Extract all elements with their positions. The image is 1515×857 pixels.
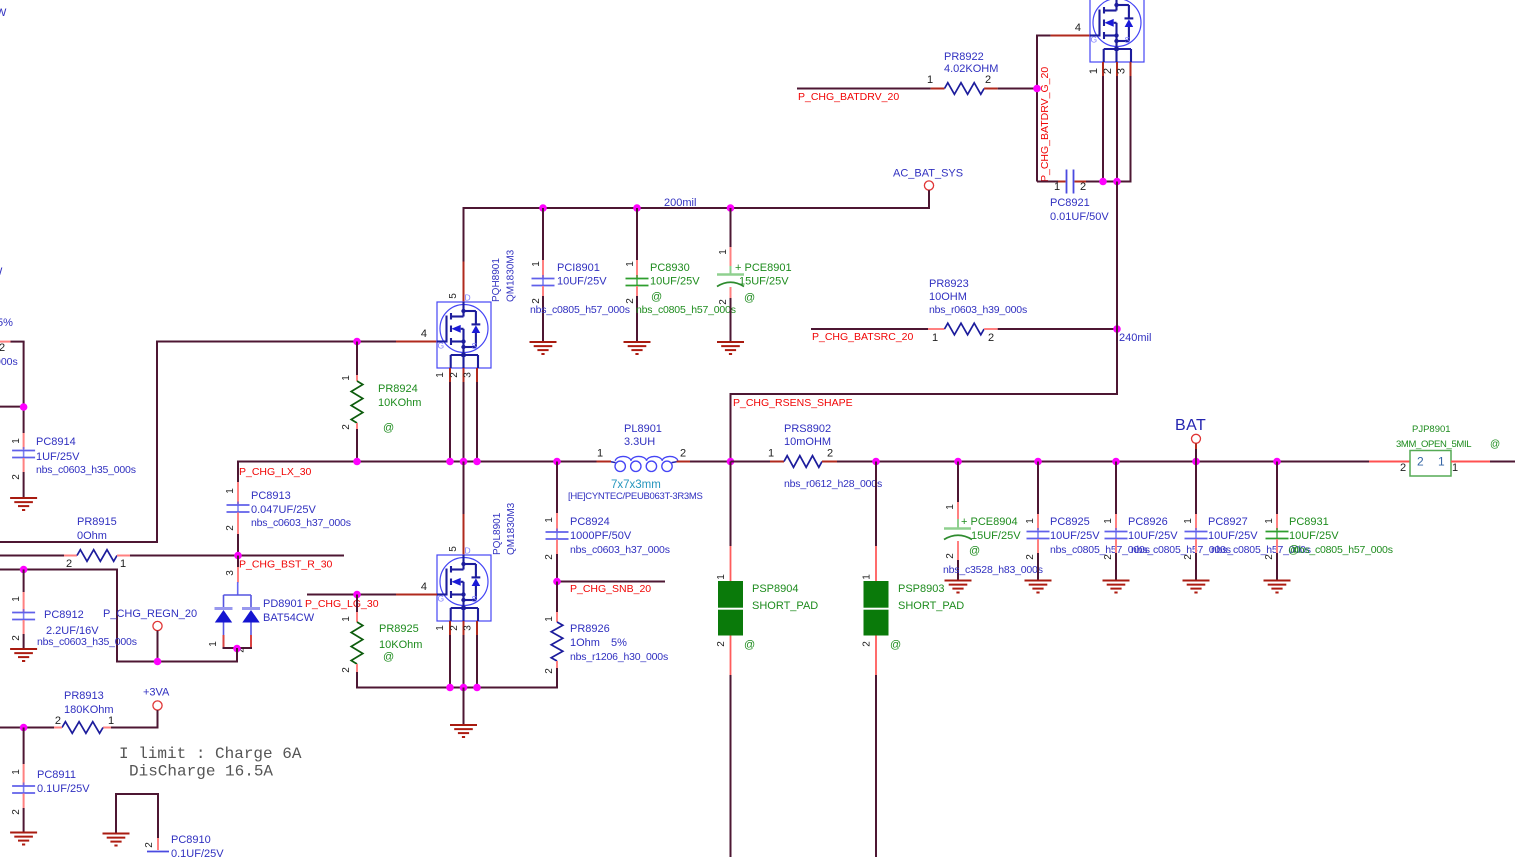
junction PC8925	[1034, 458, 1042, 466]
svg-text:G: G	[438, 594, 445, 604]
svg-text:2: 2	[449, 372, 460, 378]
svg-text:SHORT_PAD: SHORT_PAD	[752, 600, 818, 612]
svg-text:PC8924: PC8924	[570, 516, 610, 528]
svg-text:nbs_r0603_h39_000s: nbs_r0603_h39_000s	[929, 304, 1027, 316]
svg-text:1: 1	[108, 715, 114, 727]
svg-text:nbs_r0612_h28_000s: nbs_r0612_h28_000s	[784, 478, 882, 490]
resistor PRS8902 pin 2 stub	[822, 461, 837, 463]
wire REGN row horizontal	[116, 661, 238, 663]
wire net P_CHG_BST_R_30	[130, 555, 344, 557]
junction PC8914 tap	[20, 403, 28, 411]
resistor PR8923 pin 1 stub	[928, 328, 945, 330]
svg-text:@: @	[744, 639, 755, 651]
resistor PR8924 zigzag (green)	[351, 381, 363, 423]
svg-text:1: 1	[927, 74, 933, 86]
junction LX PC8924	[553, 458, 561, 466]
jumper PJP8901 body box	[1410, 451, 1451, 477]
wire stub from left edge at 406	[0, 406, 24, 408]
svg-text:3: 3	[463, 372, 474, 378]
svg-text:2: 2	[66, 558, 72, 570]
capacitor PCE8901 wire from 200mil	[730, 208, 732, 247]
capacitor PCE8904 pin 1 stub	[957, 502, 959, 519]
svg-text:1: 1	[945, 504, 956, 510]
capacitor PCE8904 pin 2 stub	[957, 541, 959, 560]
terminal +3VA	[153, 701, 162, 710]
jumper PJP8901 pin 2 stub	[1369, 461, 1410, 463]
wire PC8913 to BST junction	[237, 534, 239, 556]
svg-text:nbs_c0805_h57_000s: nbs_c0805_h57_000s	[530, 304, 630, 316]
capacitor PCE8901 wire to ground	[730, 298, 732, 342]
svg-text:DisCharge 16.5A: DisCharge 16.5A	[129, 763, 273, 781]
wire RSENS vertical down	[730, 393, 732, 462]
capacitor PC8930 wire from 200mil	[636, 208, 638, 260]
ground PCE8901	[717, 342, 744, 354]
svg-text:1: 1	[544, 517, 555, 523]
transistor PQL8901 pin 4 stub (gate)	[396, 594, 437, 596]
svg-text:10OHM: 10OHM	[929, 291, 967, 303]
diode PD8901 pin 3 stub	[237, 567, 239, 583]
junction BAT PC8927	[1192, 458, 1200, 466]
svg-text:2: 2	[341, 424, 352, 430]
svg-text:1: 1	[862, 574, 873, 580]
resistor PR8924 pin 2 stub	[356, 423, 358, 429]
wire vertical net P_CHG_BATDRV_G_20	[1036, 35, 1038, 182]
junction PC8911 tap	[20, 724, 28, 732]
svg-text:10mOHM: 10mOHM	[784, 436, 831, 448]
junction source pin3	[473, 684, 481, 692]
resistor PR8925 pin 1 stub	[356, 612, 358, 622]
svg-text:P_CHG_LG_30: P_CHG_LG_30	[305, 598, 379, 610]
resistor PR8925 zigzag (green)	[351, 622, 363, 664]
svg-text:2: 2	[1400, 462, 1406, 474]
resistor PR8926 wire top	[556, 582, 558, 613]
svg-text:2: 2	[1103, 554, 1114, 560]
svg-text:PC8921: PC8921	[1050, 197, 1090, 209]
svg-text:1UF/25V: 1UF/25V	[36, 451, 80, 463]
resistor PR8922 zigzag	[945, 83, 985, 95]
svg-text:SHORT_PAD: SHORT_PAD	[898, 600, 964, 612]
svg-text:@: @	[651, 291, 662, 303]
svg-text:200mil: 200mil	[664, 197, 696, 209]
svg-text:P_CHG_LX_30: P_CHG_LX_30	[239, 466, 312, 478]
capacitor PC8925 pin 2 stub	[1037, 539, 1039, 553]
svg-text:P_CHG_BATDRV_20: P_CHG_BATDRV_20	[798, 91, 899, 103]
svg-text:nbs_c0603_h35_000s: nbs_c0603_h35_000s	[37, 636, 137, 648]
svg-text:1: 1	[435, 625, 446, 631]
svg-text:2: 2	[1102, 68, 1114, 74]
capacitor PC8921 plates	[1066, 170, 1068, 194]
capacitor PC8930 wire to ground	[636, 296, 638, 342]
resistor PRS8902 zigzag	[784, 456, 822, 468]
resistor PR8915 pin 2 stub	[64, 555, 77, 557]
svg-text:1: 1	[1088, 68, 1100, 74]
svg-text:PSP8903: PSP8903	[898, 583, 944, 595]
ground PC8925	[1025, 581, 1052, 593]
capacitor PC8926 wire to ground	[1115, 553, 1117, 580]
wire 200mil horizontal	[463, 207, 931, 209]
svg-text:0.1UF/25V: 0.1UF/25V	[37, 783, 90, 795]
svg-text:1: 1	[208, 641, 219, 647]
svg-text:D: D	[465, 546, 471, 556]
resistor PR8915 zigzag	[77, 550, 117, 562]
wire BAT row	[837, 461, 1369, 463]
diode PD8901 pin 1 stub	[223, 635, 225, 648]
svg-text:7x7x3mm: 7x7x3mm	[611, 479, 661, 491]
svg-text:1: 1	[435, 372, 446, 378]
short pad PSP8903 pin 1 stub	[875, 546, 877, 581]
svg-text:AC_BAT_SYS: AC_BAT_SYS	[893, 168, 963, 180]
resistor PR8922 wire left segment / net P_CHG_BATDRV_20	[797, 88, 931, 90]
capacitor PCI8901 pin 1 stub	[542, 260, 544, 278]
resistor PR8913 zigzag	[62, 722, 103, 734]
svg-text:2: 2	[716, 641, 727, 647]
wire PC8924 to SNB junction	[556, 554, 558, 582]
svg-text:PR8915: PR8915	[77, 516, 117, 528]
wire RSENS to PRS8902	[731, 461, 771, 463]
resistor PR8913 pin 1 stub	[103, 727, 111, 729]
transistor PQH8901 pin 5 stub (drain)	[463, 262, 465, 303]
resistor PR8924 pin 1 stub	[356, 375, 358, 381]
junction 200mil at PC8930	[633, 204, 641, 212]
svg-text:10UF/25V: 10UF/25V	[1208, 530, 1258, 542]
inductor PL8901 pin 2 stub	[677, 461, 691, 463]
resistor PR8925 wire top	[356, 595, 358, 613]
junction PD8901 bottom	[233, 645, 241, 653]
wire 240mil vertical	[1116, 182, 1118, 395]
capacitor PC8912 pin 1 stub	[23, 592, 25, 612]
svg-text:@: @	[1288, 544, 1299, 556]
wire left box horizontal to edge	[0, 541, 158, 543]
off-page resistor pin stub	[0, 341, 11, 343]
svg-text:10UF/25V: 10UF/25V	[650, 276, 700, 288]
svg-text:PC8914: PC8914	[36, 436, 76, 448]
svg-text:3: 3	[225, 570, 236, 576]
svg-text:1: 1	[531, 261, 542, 267]
svg-text:PJP8901: PJP8901	[1412, 424, 1451, 435]
svg-text:PQL8901: PQL8901	[492, 512, 503, 555]
capacitor PCE8901 pin 1 stub	[730, 247, 732, 266]
capacitor PCE8904 wire from BAT row	[957, 462, 959, 503]
capacitor PC8912 wire to ground	[23, 634, 25, 648]
ground PC8911	[10, 833, 37, 845]
ground PC8914	[10, 498, 37, 510]
svg-text:2: 2	[225, 525, 236, 531]
wire pin1 of top transistor down to cap node	[1102, 76, 1104, 182]
junction BATDRV_G	[1033, 85, 1041, 93]
junction PC8921 right 2	[1113, 178, 1121, 186]
svg-text:2: 2	[1025, 554, 1036, 560]
junction LX pin2	[460, 458, 468, 466]
transistor top pins 1,2,3 stubs	[1102, 62, 1104, 76]
wire down to PQH8901 drain	[463, 207, 465, 262]
svg-text:0.1UF/25V: 0.1UF/25V	[171, 848, 224, 857]
svg-text:2: 2	[11, 809, 22, 815]
junction LX PR8924	[353, 458, 361, 466]
svg-text:@: @	[383, 651, 394, 663]
svg-text:4: 4	[421, 328, 427, 340]
svg-text:PR8926: PR8926	[570, 623, 610, 635]
junction 200mil at PCI8901	[539, 204, 547, 212]
short pad PSP8903 pad rectangles	[864, 581, 889, 608]
wire PQL8901 pin1 down	[449, 635, 451, 688]
capacitor PC8927 plates	[1195, 528, 1197, 542]
wire PQH8901 pin3 down to LX	[476, 382, 478, 462]
wire LX corner down	[237, 461, 239, 483]
wire net P_CHG_SNB_20	[557, 581, 665, 583]
capacitor PC8925 wire to ground	[1037, 553, 1039, 580]
capacitor PC8931 pin 1 stub	[1276, 514, 1278, 530]
junction SNB	[553, 578, 561, 586]
svg-text:nbs_c0805_h57_000s: nbs_c0805_h57_000s	[1293, 544, 1393, 556]
wire BAT row right to edge	[1490, 461, 1515, 463]
wire from AC_BAT_SYS down	[928, 190, 930, 209]
svg-text:2: 2	[988, 332, 994, 344]
capacitor PC8911 pin 1 stub	[23, 764, 25, 785]
svg-text:+ PCE8901: + PCE8901	[735, 262, 792, 274]
svg-text:1: 1	[1264, 518, 1275, 524]
capacitor PCI8901 wire from 200mil	[542, 208, 544, 260]
capacitor PCE8901 positive plate	[730, 266, 732, 275]
resistor PR8915 pin 1 stub	[117, 555, 130, 557]
svg-text:2: 2	[144, 842, 155, 848]
svg-text:PC8931: PC8931	[1289, 516, 1329, 528]
transistor PQ8920 pin 4 stub	[1051, 35, 1090, 37]
junction BATSRC at 240mil	[1113, 325, 1121, 333]
svg-text:1: 1	[1438, 455, 1445, 469]
junction BST PC8913	[234, 552, 242, 560]
wire PR8923 to 240mil vertical	[998, 328, 1117, 330]
svg-text:G: G	[1091, 35, 1098, 45]
svg-text:P_CHG_RSENS_SHAPE: P_CHG_RSENS_SHAPE	[733, 397, 853, 409]
svg-text:1: 1	[1183, 518, 1194, 524]
junction PC8931	[1273, 458, 1281, 466]
svg-text:PR8922: PR8922	[944, 51, 984, 63]
wire BAT terminal down	[1195, 443, 1197, 449]
wire PQL8901 pin2 down	[463, 635, 465, 688]
svg-text:10UF/25V: 10UF/25V	[1289, 530, 1339, 542]
wire PC8914 vertical leg	[23, 342, 25, 433]
svg-text:1: 1	[341, 375, 352, 381]
ground PQL8901 source	[450, 725, 477, 737]
short pad PSP8903 wire from BAT row	[875, 462, 877, 547]
svg-text:2: 2	[862, 641, 873, 647]
capacitor PC8911 wire top	[23, 728, 25, 765]
svg-text:4: 4	[421, 581, 427, 593]
capacitor PC8913 plates	[237, 502, 239, 516]
svg-text:1: 1	[11, 438, 22, 444]
capacitor PC8924 pin 2 stub	[556, 540, 558, 555]
svg-text:240mil: 240mil	[1119, 332, 1151, 344]
svg-text:2: 2	[945, 553, 956, 559]
resistor PR8926 zigzag	[551, 622, 563, 661]
svg-text:I limit : Charge 6A: I limit : Charge 6A	[119, 745, 302, 763]
svg-text:3.3UH: 3.3UH	[624, 436, 655, 448]
wire left box vertical	[156, 341, 158, 544]
capacitor PC8930 pin 2 stub	[636, 286, 638, 296]
svg-text:0Ohm: 0Ohm	[77, 530, 107, 542]
capacitor PCI8901 plates	[542, 275, 544, 289]
capacitor PCE8904 curved negative plate	[944, 535, 972, 539]
capacitor PC8921 pin 2 stub	[1075, 181, 1087, 183]
wire PQH8901 pin1 down to LX	[449, 382, 451, 462]
capacitor PC8931 pin 2 stub	[1276, 539, 1278, 553]
short pad PSP8903 pin 2 stub	[875, 636, 877, 676]
wire gate of PQH8901 to left	[158, 341, 396, 343]
svg-text:5: 5	[448, 546, 459, 552]
short pad PSP8904 pin 1 stub	[730, 546, 732, 581]
capacitor PC8927 pin 2 stub	[1195, 539, 1197, 553]
transistor PQL8901 pin 5 stub (drain)	[463, 514, 465, 555]
resistor PR8925 wire bottom	[356, 672, 358, 689]
wire net P_CHG_BATSRC_20	[811, 328, 928, 330]
ground PC8926	[1103, 581, 1130, 593]
junction PR8924 top	[353, 338, 361, 346]
capacitor PC8926 pin 2 stub	[1115, 539, 1117, 553]
svg-text:15UF/25V: 15UF/25V	[739, 276, 789, 288]
transistor PQ8920 (top) symbol body	[1090, 0, 1144, 62]
capacitor PC8914 pin 2 stub	[23, 458, 25, 472]
svg-text:3: 3	[1116, 68, 1128, 74]
svg-text:10UF/25V: 10UF/25V	[1050, 530, 1100, 542]
svg-text:@: @	[383, 422, 394, 434]
svg-text:1: 1	[544, 616, 555, 622]
svg-text:[HE]CYNTEC/PEUB063T-3R3MS: [HE]CYNTEC/PEUB063T-3R3MS	[568, 491, 703, 502]
junction LX pin3	[473, 458, 481, 466]
junction REGN	[154, 658, 162, 666]
junction LX pin1	[446, 458, 454, 466]
capacitor PCE8904 wire to ground	[957, 560, 959, 580]
svg-text:2: 2	[985, 74, 991, 86]
wire PD8901 down to REGN row	[236, 648, 238, 663]
svg-text:S: S	[1125, 35, 1131, 45]
capacitor PC8924 plates	[556, 529, 558, 543]
wire REGN left vertical	[116, 569, 118, 663]
junction PC8912 tap	[20, 566, 28, 574]
svg-text:2: 2	[55, 715, 61, 727]
svg-text:2: 2	[544, 554, 555, 560]
svg-text:4: 4	[1075, 22, 1081, 34]
junction PCE8904	[954, 458, 962, 466]
capacitor PC8912 pin 2 stub	[23, 620, 25, 634]
junction PC8926	[1112, 458, 1120, 466]
svg-text:BAT54CW: BAT54CW	[263, 612, 315, 624]
wire PR8913 to left edge	[0, 727, 54, 729]
svg-text:2: 2	[449, 625, 460, 631]
capacitor PC8911 pin 2 stub	[23, 794, 25, 809]
wire +3VA down	[157, 710, 159, 728]
capacitor PC8914 wire to ground	[23, 472, 25, 497]
svg-text:10UF/25V: 10UF/25V	[557, 276, 607, 288]
svg-text:BAT: BAT	[1175, 417, 1206, 434]
svg-text:PC8912: PC8912	[44, 609, 84, 621]
svg-text:P_CHG_BATSRC_20: P_CHG_BATSRC_20	[812, 331, 914, 343]
svg-text:W: W	[0, 7, 7, 19]
svg-text:1: 1	[597, 448, 603, 460]
diode PD8901 symbol	[215, 582, 261, 635]
wire PQH8901 pin2 down to LX	[463, 382, 465, 462]
junction PC8921 right 1	[1099, 178, 1107, 186]
svg-text:2: 2	[531, 298, 542, 304]
transistor PQL8901 symbol body	[437, 546, 491, 622]
capacitor PCI8901 pin 2 stub	[542, 286, 544, 296]
capacitor PCE8901 curved negative plate	[717, 282, 744, 286]
svg-text:PR8925: PR8925	[379, 623, 419, 635]
capacitor PC8931 wire to ground	[1276, 553, 1278, 580]
ground PC8930	[624, 342, 651, 354]
svg-text:1: 1	[1452, 462, 1458, 474]
svg-text:@: @	[969, 545, 980, 557]
svg-text:nbs_c3528_h83_000s: nbs_c3528_h83_000s	[943, 564, 1043, 576]
svg-text:QM1830M3: QM1830M3	[506, 249, 517, 302]
svg-text:1: 1	[768, 448, 774, 460]
capacitor PCE8901 pin 2 stub	[730, 287, 732, 298]
resistor PR8922 pin 1 stub	[931, 88, 945, 90]
capacitor PC8925 plates	[1037, 528, 1039, 542]
svg-text:1: 1	[716, 574, 727, 580]
capacitor PC8914 plates	[23, 447, 25, 461]
svg-text:1: 1	[341, 616, 352, 622]
svg-text:2: 2	[1183, 554, 1194, 560]
svg-text:@: @	[890, 639, 901, 651]
diode PD8901 bottom bar	[223, 647, 253, 649]
svg-text:1: 1	[1054, 181, 1060, 193]
svg-text:000s: 000s	[0, 356, 18, 368]
junction RSENS node	[727, 458, 735, 466]
wire pin3 of top transistor down to corner	[1130, 76, 1132, 183]
svg-text:2: 2	[544, 668, 555, 674]
short pad PSP8904 pad rectangles	[718, 581, 743, 608]
svg-text:1: 1	[11, 596, 22, 602]
svg-text:P_CHG_BATDRV_G_20: P_CHG_BATDRV_G_20	[1039, 67, 1051, 182]
wire source to ground	[463, 688, 465, 725]
svg-text:PR8923: PR8923	[929, 278, 969, 290]
capacitor PC8913 pin 2 stub	[237, 513, 239, 535]
svg-text:PC8925: PC8925	[1050, 516, 1090, 528]
junction source pin2	[460, 684, 468, 692]
svg-text:PC8926: PC8926	[1128, 516, 1168, 528]
wire REGN terminal down	[157, 631, 159, 662]
svg-text:180KOhm: 180KOhm	[64, 704, 114, 716]
transistor PQH8901 pins 1,2,3 stubs	[449, 368, 451, 382]
capacitor PC8913 pin 1 stub	[237, 482, 239, 504]
capacitor PC8925 pin 1 stub	[1037, 514, 1039, 530]
wire REGN to left edge	[0, 569, 118, 571]
wire net P_CHG_LG_30 horizontal	[307, 594, 396, 596]
capacitor PC8926 wire from BAT row	[1115, 462, 1117, 515]
svg-text:PC8930: PC8930	[650, 262, 690, 274]
wire from left edge to PC8914 leg	[11, 341, 25, 343]
capacitor PC8926 plates	[1115, 528, 1117, 542]
svg-text:0.01UF/50V: 0.01UF/50V	[1050, 211, 1109, 223]
svg-text:PC8911: PC8911	[37, 769, 76, 781]
svg-text:10KOhm: 10KOhm	[378, 397, 421, 409]
svg-text:PR8924: PR8924	[378, 383, 418, 395]
resistor PR8926 pin 2 stub	[556, 661, 558, 668]
short pad PSP8903 wire down to edge	[875, 675, 877, 857]
capacitor PC8930 pin 1 stub	[636, 260, 638, 278]
capacitor PC8912 wire top	[23, 570, 25, 593]
svg-text:PD8901: PD8901	[263, 598, 303, 610]
svg-text:10KOhm: 10KOhm	[379, 639, 422, 651]
svg-text:QM1830M3: QM1830M3	[506, 502, 517, 555]
jumper PJP8901 pin 1 stub	[1451, 461, 1490, 463]
capacitor PC8921 left wire	[1037, 181, 1058, 183]
resistor PR8926 pin 1 stub	[556, 612, 558, 622]
capacitor PC8912 plates	[23, 609, 25, 623]
capacitor PC8927 wire to ground	[1195, 553, 1197, 580]
capacitor PC8910 loop wire	[115, 793, 117, 833]
svg-text:1: 1	[625, 261, 636, 267]
